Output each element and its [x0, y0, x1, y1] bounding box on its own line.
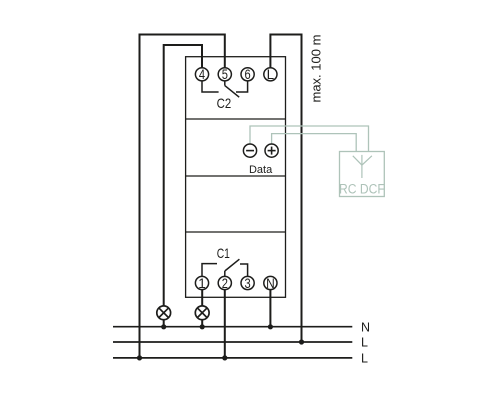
- terminal 4: [195, 67, 208, 82]
- terminal 2: [218, 276, 231, 291]
- terminal L top: [264, 67, 277, 82]
- junction lamp E1 / N rail: [161, 324, 166, 329]
- svg-text:C1: C1: [217, 245, 230, 261]
- contact C1: [202, 259, 248, 276]
- svg-text:L: L: [361, 336, 368, 350]
- terminal N bottom: [264, 276, 277, 291]
- antenna wire from plus to RC DCF: [272, 134, 357, 152]
- terminal 3: [241, 276, 254, 291]
- wire terminal 1 to lamp E2: [201, 290, 203, 306]
- divider line: [186, 118, 286, 120]
- svg-text:5: 5: [222, 67, 228, 82]
- junction L wire / middle L rail: [299, 339, 304, 344]
- wire lamp E1 to N rail: [163, 320, 165, 327]
- terminal 5: [218, 67, 231, 82]
- antenna symbol: [353, 155, 372, 178]
- device box U1: [186, 57, 286, 298]
- divider line: [186, 231, 286, 233]
- wire from terminal 5 loop to bottom L rail: [140, 35, 225, 358]
- svg-text:N: N: [266, 276, 275, 291]
- terminal 1: [195, 276, 208, 291]
- svg-text:RC DCF: RC DCF: [339, 182, 385, 197]
- terminal Data minus: [243, 144, 256, 157]
- svg-text:max. 100 m: max. 100 m: [309, 35, 324, 103]
- svg-text:L: L: [267, 67, 275, 82]
- junction lamp E2 / N rail: [200, 324, 205, 329]
- wire terminal N to N rail: [269, 290, 271, 327]
- N rail: [113, 326, 352, 328]
- svg-text:4: 4: [199, 67, 206, 82]
- svg-text:L: L: [361, 351, 368, 365]
- junction terminal N / N rail: [268, 324, 273, 329]
- svg-text:Data: Data: [249, 164, 273, 176]
- svg-text:C2: C2: [217, 95, 232, 111]
- junction left wire / bottom L rail: [137, 355, 142, 360]
- terminal Data plus: [265, 144, 278, 157]
- wire terminal 2 to bottom L rail: [224, 290, 226, 358]
- wire from terminal L loop to middle L rail: [270, 35, 301, 343]
- terminal 6: [241, 67, 254, 82]
- svg-text:1: 1: [198, 276, 206, 291]
- RC DCF receiver box: [340, 152, 385, 197]
- svg-text:2: 2: [222, 276, 228, 291]
- svg-text:N: N: [361, 320, 370, 334]
- L rail bottom: [113, 357, 352, 359]
- antenna wire from minus to RC DCF: [250, 126, 369, 152]
- wire lamp E2 to N rail: [201, 320, 203, 327]
- lamp E2: [195, 306, 209, 320]
- junction terminal 2 / bottom L rail: [222, 355, 227, 360]
- svg-text:6: 6: [245, 67, 251, 82]
- svg-text:3: 3: [245, 276, 251, 291]
- wire from terminal 4 loop down to lamp E1: [164, 45, 202, 306]
- contact C2: [202, 81, 248, 97]
- lamp E1: [157, 306, 171, 320]
- divider line: [186, 175, 286, 177]
- L rail middle: [113, 341, 352, 343]
